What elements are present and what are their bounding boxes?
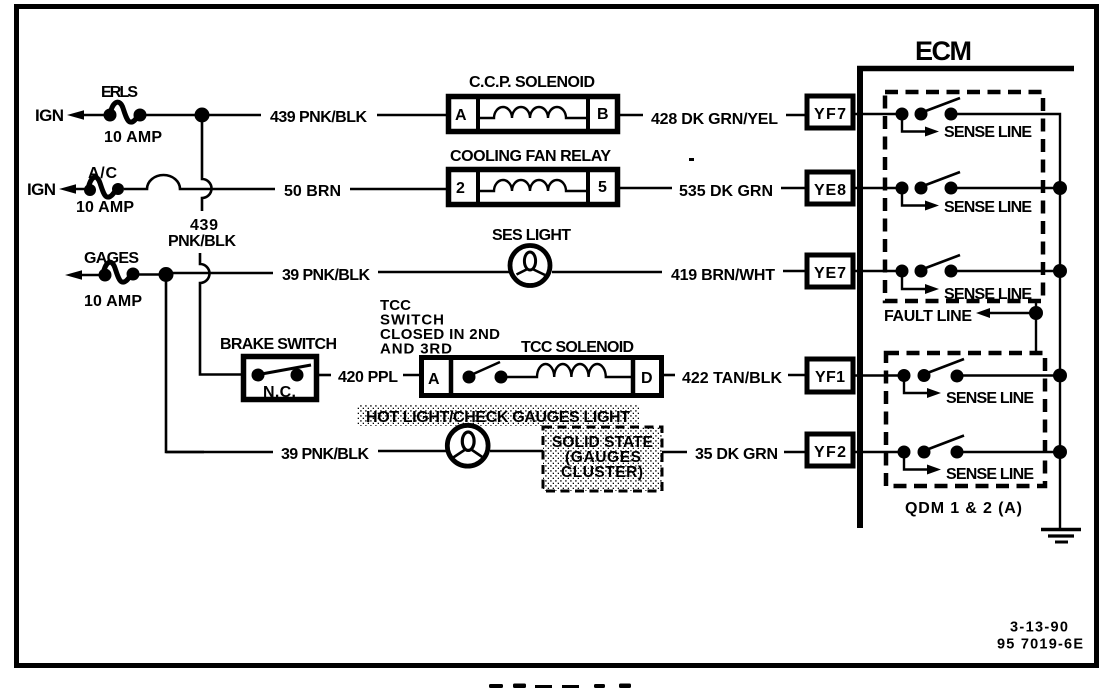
QDM dashed box 1 [885, 92, 1043, 301]
ECM box outline [857, 66, 1074, 528]
svg-text:39 PNK/BLK: 39 PNK/BLK [281, 446, 369, 463]
svg-text:ECM: ECM [915, 36, 972, 66]
svg-text:439 PNK/BLK: 439 PNK/BLK [270, 109, 367, 126]
wire row2 to common line [951, 187, 1060, 189]
wire row4 to common line [957, 374, 1060, 376]
svg-text:50 BRN: 50 BRN [284, 183, 341, 200]
driver switch row 3 [896, 255, 961, 278]
wire hot light lamp to gauges cluster [490, 450, 544, 453]
sense line arrow row 1 [902, 114, 1032, 141]
svg-text:IGN: IGN [27, 180, 56, 199]
svg-text:SENSE LINE: SENSE LINE [946, 390, 1034, 407]
svg-text:10 AMP: 10 AMP [76, 199, 134, 216]
connector terminal YF2 [807, 434, 853, 466]
svg-text:3-13-90: 3-13-90 [1010, 620, 1068, 636]
svg-text:CLUSTER): CLUSTER) [561, 464, 643, 481]
svg-text:5: 5 [598, 179, 607, 196]
svg-text:HOT LIGHT/CHECK GAUGES LIGHT: HOT LIGHT/CHECK GAUGES LIGHT [366, 409, 630, 426]
svg-text:SENSE LINE: SENSE LINE [944, 286, 1032, 303]
wire SES light to label 419 [552, 271, 662, 274]
wire fuse ERLS to node A [146, 114, 204, 117]
svg-text:YF2: YF2 [814, 444, 846, 461]
svg-text:SENSE LINE: SENSE LINE [944, 124, 1032, 141]
wire label 420 to TCC switch pin A [403, 374, 421, 377]
hot light lamp [447, 425, 488, 466]
wire row5 to common line [957, 451, 1060, 453]
driver switch row 1 [896, 98, 961, 121]
wire node A to label 439 PNK/BLK [209, 114, 261, 117]
node common row3 [1053, 264, 1067, 278]
wire label to hot light lamp [378, 450, 447, 453]
wire row1 to common line and down [951, 114, 1060, 528]
fuse GAGES 10 AMP [84, 250, 142, 310]
sense line arrow row 5 [904, 452, 1034, 483]
arrow to IGN row 1 [67, 110, 108, 120]
wire label to C.C.P. solenoid pin A [377, 114, 449, 117]
svg-text:FAULT LINE: FAULT LINE [884, 308, 972, 325]
connector terminal YE8 [807, 172, 853, 204]
wire vertical 439 PNK/BLK upper segment with hop over row2 [202, 122, 212, 211]
wire YE7 into ECM [853, 270, 902, 272]
scan speck [689, 158, 694, 161]
label 439 PNK/BLK vertical [168, 217, 236, 250]
driver switch row 4 [898, 359, 965, 383]
svg-text:IGN: IGN [35, 106, 64, 125]
cropped caption glyphs at bottom edge [489, 684, 631, 688]
svg-text:N.C.: N.C. [263, 384, 296, 401]
driver switch row 2 [896, 172, 961, 195]
wire brake switch to label 420 PPL [318, 374, 331, 377]
svg-text:PNK/BLK: PNK/BLK [168, 233, 236, 250]
svg-text:YF7: YF7 [814, 106, 846, 123]
svg-text:YF1: YF1 [815, 369, 845, 386]
svg-text:39 PNK/BLK: 39 PNK/BLK [282, 267, 370, 284]
SES light lamp [492, 227, 571, 286]
svg-text:422 TAN/BLK: 422 TAN/BLK [682, 370, 782, 387]
svg-text:D: D [641, 370, 653, 387]
wire row3 to common line [951, 270, 1060, 272]
svg-text:SENSE LINE: SENSE LINE [946, 466, 1034, 483]
wire label 50 BRN to cooling fan relay pin 2 [350, 188, 449, 191]
wire label 422 to YF1 [788, 374, 806, 377]
node common row5 [1053, 445, 1067, 459]
node common row4 [1053, 369, 1067, 383]
wire A/C fuse with hump over crossing, to label 50 BRN [124, 175, 275, 189]
node common row2 [1053, 181, 1067, 195]
wire label 419 to YE7 [783, 270, 806, 273]
hot light highlight label [357, 404, 640, 426]
wire gauges cluster to label 35 [662, 451, 687, 454]
svg-text:10 AMP: 10 AMP [84, 293, 142, 310]
wire YF7 into ECM [853, 113, 902, 115]
svg-text:2: 2 [456, 180, 465, 197]
svg-text:SES LIGHT: SES LIGHT [492, 227, 571, 244]
svg-text:YE8: YE8 [814, 182, 846, 199]
wire label 535 to YE8 [781, 187, 806, 190]
driver switch row 5 [898, 436, 965, 459]
svg-text:439: 439 [190, 217, 218, 234]
svg-text:SENSE LINE: SENSE LINE [944, 199, 1032, 216]
wire TCC pin D to label 422 [662, 374, 675, 377]
TCC switch and solenoid L2 [422, 357, 662, 396]
node B junction GAGES feed [159, 267, 174, 282]
svg-text:B: B [597, 106, 609, 123]
wire label 428 to YF7 [786, 114, 806, 117]
svg-text:419 BRN/WHT: 419 BRN/WHT [671, 267, 775, 284]
wire GAGES feed to label 39 PNK/BLK row5 [166, 451, 273, 454]
fuse ERLS 10 AMP [101, 84, 162, 146]
wire fuse GAGES to node B [139, 273, 166, 276]
brake switch S1 N.C. [220, 336, 337, 401]
wire node B to label 39 PNK/BLK [173, 272, 273, 275]
wire vertical 439 PNK/BLK lower segment with hop over row3, into brake switch [200, 253, 241, 375]
svg-text:C.C.P. SOLENOID: C.C.P. SOLENOID [469, 74, 595, 91]
sense line arrow row 4 [904, 376, 1034, 408]
wire label to SES light [378, 271, 510, 274]
wire YF1 into ECM [853, 374, 904, 376]
svg-text:10 AMP: 10 AMP [104, 129, 162, 146]
svg-text:ERLS: ERLS [101, 84, 138, 101]
svg-text:535 DK GRN: 535 DK GRN [679, 183, 773, 200]
connector terminal YF7 [807, 96, 853, 128]
sense line arrow row 3 [902, 271, 1032, 303]
sense line arrow row 2 [902, 188, 1032, 216]
svg-text:A: A [428, 371, 440, 388]
svg-text:COOLING FAN RELAY: COOLING FAN RELAY [450, 148, 611, 165]
wire relay pin 5 to label 535 [618, 187, 672, 190]
svg-text:TCC SOLENOID: TCC SOLENOID [521, 339, 634, 356]
connector terminal YE7 [807, 255, 853, 287]
fuse A/C 10 AMP [76, 165, 134, 216]
arrow left row 3 [65, 270, 105, 280]
arrow to IGN row 2 [59, 184, 90, 194]
node A junction 439 PNK/BLK [195, 108, 210, 123]
svg-text:AND 3RD: AND 3RD [380, 341, 452, 358]
QDM dashed box 2 [886, 353, 1045, 486]
connector terminal YF1 [807, 359, 853, 392]
wire label 35 to YF2 [784, 451, 806, 454]
fault line arrow [884, 302, 1043, 353]
wire C.C.P. pin B to label 428 [618, 114, 643, 117]
solid state gauges cluster U1 [543, 427, 662, 491]
svg-text:YE7: YE7 [814, 265, 846, 282]
cooling fan relay K1 [449, 148, 618, 205]
svg-text:420 PPL: 420 PPL [338, 369, 398, 386]
wire vertical GAGES feed down to hot light row [166, 281, 204, 452]
C.C.P. solenoid L1 [449, 74, 618, 132]
wire YE8 into ECM [853, 187, 902, 189]
svg-text:BRAKE SWITCH: BRAKE SWITCH [220, 336, 337, 353]
svg-text:428 DK GRN/YEL: 428 DK GRN/YEL [651, 111, 778, 128]
svg-text:35 DK GRN: 35 DK GRN [695, 446, 778, 463]
TCC switch label [380, 297, 500, 358]
svg-text:A: A [455, 107, 467, 124]
wire YF2 into ECM [853, 451, 904, 453]
ground [1041, 530, 1081, 543]
svg-text:95 7019-6E: 95 7019-6E [997, 637, 1083, 653]
svg-text:QDM 1 & 2 (A): QDM 1 & 2 (A) [905, 500, 1022, 517]
